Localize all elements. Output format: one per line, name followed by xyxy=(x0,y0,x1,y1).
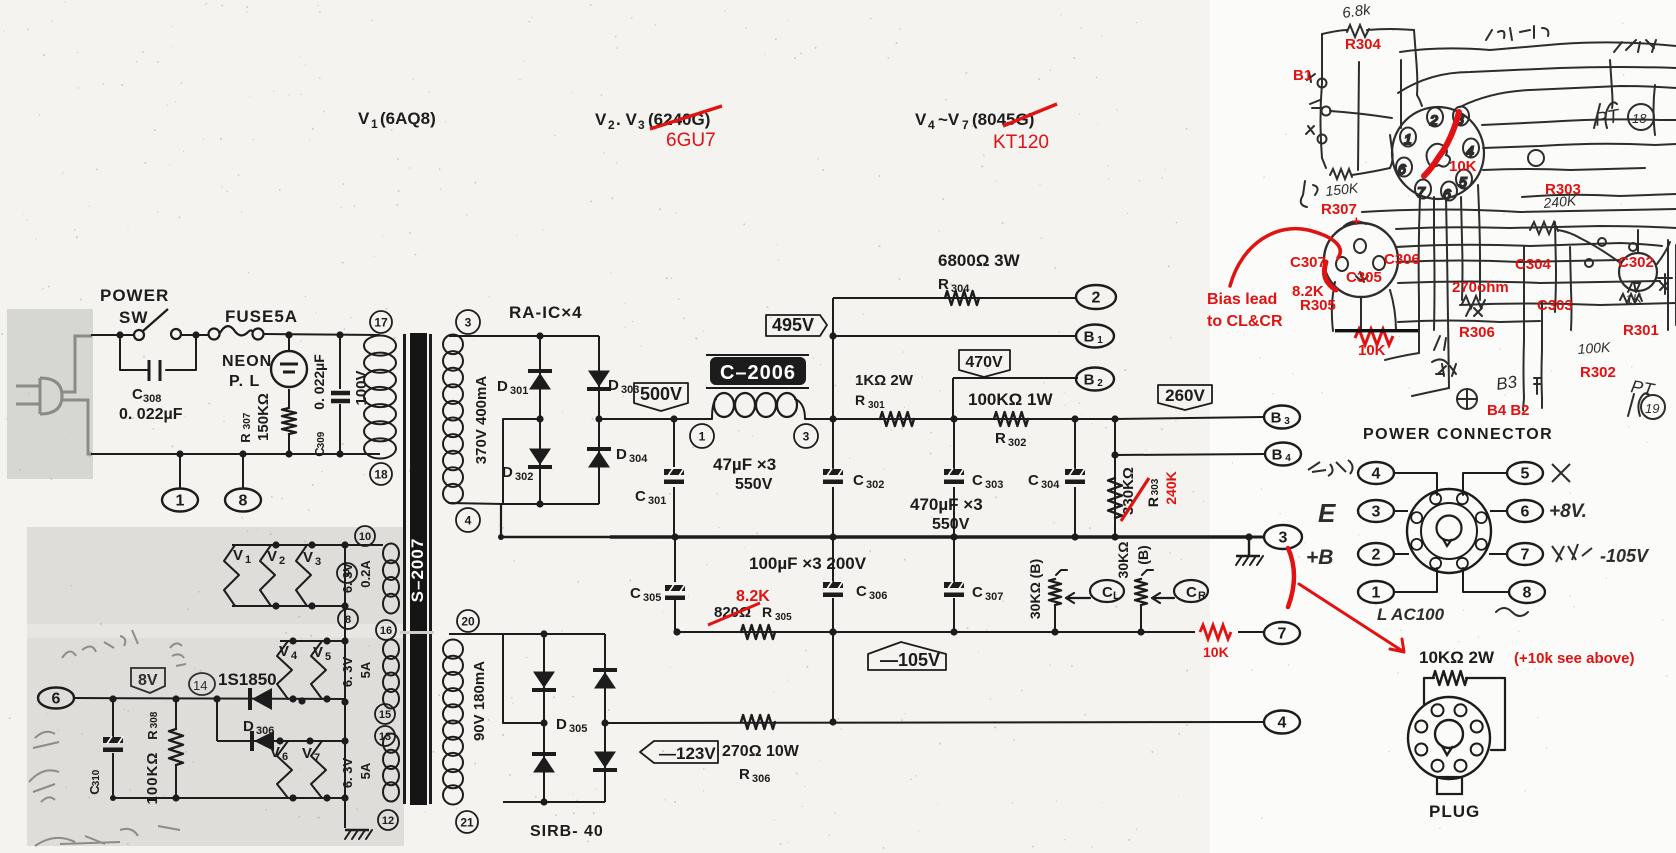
svg-text:1KΩ 2W: 1KΩ 2W xyxy=(855,372,914,389)
svg-text:+8V.: +8V. xyxy=(1549,501,1587,522)
svg-text:6: 6 xyxy=(1521,504,1530,521)
svg-text:500V: 500V xyxy=(640,384,682,404)
svg-text:30KΩ (B): 30KΩ (B) xyxy=(1027,559,1043,619)
svg-text:V: V xyxy=(358,109,370,128)
svg-text:R: R xyxy=(238,433,253,443)
svg-text:V: V xyxy=(233,547,243,564)
svg-text:POWER: POWER xyxy=(100,286,169,305)
svg-text:6800Ω 3W: 6800Ω 3W xyxy=(938,251,1021,270)
svg-text:C307: C307 xyxy=(1290,254,1326,271)
svg-text:6GU7: 6GU7 xyxy=(666,130,716,151)
svg-text:240K: 240K xyxy=(1163,471,1179,504)
svg-text:V: V xyxy=(915,110,927,129)
svg-text:C: C xyxy=(1186,584,1197,601)
svg-text:RA-IC×4: RA-IC×4 xyxy=(509,303,583,322)
svg-text:0.2A: 0.2A xyxy=(358,560,373,588)
svg-text:C303: C303 xyxy=(1537,297,1573,314)
svg-text:V: V xyxy=(270,744,280,761)
svg-text:305: 305 xyxy=(775,612,792,623)
svg-text:. V: . V xyxy=(616,110,637,129)
svg-text:R304: R304 xyxy=(1345,36,1382,53)
svg-text:—123V: —123V xyxy=(659,744,716,763)
svg-text:304: 304 xyxy=(629,453,648,465)
svg-text:8.2K: 8.2K xyxy=(736,588,770,605)
svg-text:5: 5 xyxy=(1459,174,1467,190)
svg-text:0. 022µF: 0. 022µF xyxy=(119,406,183,423)
svg-text:(6AQ8): (6AQ8) xyxy=(380,109,436,128)
svg-text:C: C xyxy=(853,472,864,489)
svg-text:303: 303 xyxy=(621,384,639,396)
svg-text:305: 305 xyxy=(569,723,587,735)
svg-text:R: R xyxy=(1198,590,1206,602)
svg-text:—105V: —105V xyxy=(880,650,940,670)
svg-text:C: C xyxy=(1102,584,1113,601)
svg-text:C302: C302 xyxy=(1618,254,1654,271)
svg-text:4: 4 xyxy=(1278,715,1287,732)
svg-text:47µF ×3: 47µF ×3 xyxy=(713,455,776,474)
svg-text:V: V xyxy=(267,548,277,565)
svg-text:310: 310 xyxy=(91,769,102,786)
svg-text:5A: 5A xyxy=(358,661,373,678)
svg-text:Bias lead: Bias lead xyxy=(1207,291,1277,308)
svg-text:6: 6 xyxy=(1398,161,1406,177)
svg-text:PLUG: PLUG xyxy=(1429,802,1480,821)
svg-text:15: 15 xyxy=(379,709,391,721)
svg-text:270Ω 10W: 270Ω 10W xyxy=(722,743,800,760)
svg-text:R: R xyxy=(855,392,865,408)
svg-text:470µF ×3: 470µF ×3 xyxy=(910,495,983,514)
svg-text:820Ω: 820Ω xyxy=(714,604,751,621)
svg-text:303: 303 xyxy=(1150,478,1161,495)
svg-text:550V: 550V xyxy=(735,476,773,493)
svg-text:R: R xyxy=(938,276,949,293)
svg-text:3: 3 xyxy=(1372,504,1381,521)
svg-text:R: R xyxy=(1145,497,1161,507)
svg-text:R303: R303 xyxy=(1545,181,1581,198)
svg-text:2: 2 xyxy=(1372,547,1381,564)
svg-text:R: R xyxy=(739,766,750,783)
svg-text:305: 305 xyxy=(643,592,661,604)
svg-text:100KΩ 1W: 100KΩ 1W xyxy=(968,390,1053,409)
svg-text:1: 1 xyxy=(699,429,706,443)
svg-text:306: 306 xyxy=(752,773,770,785)
svg-text:19: 19 xyxy=(1645,401,1659,416)
svg-text:301: 301 xyxy=(868,400,885,411)
svg-text:270ohm: 270ohm xyxy=(1452,279,1509,296)
svg-text:306: 306 xyxy=(256,725,274,737)
svg-text:D: D xyxy=(497,378,508,395)
svg-text:4: 4 xyxy=(465,513,472,527)
svg-text:C: C xyxy=(132,386,143,403)
svg-text:3: 3 xyxy=(465,315,472,329)
svg-text:R: R xyxy=(762,604,772,620)
svg-text:E: E xyxy=(1318,498,1336,528)
svg-text:10K: 10K xyxy=(1449,158,1477,175)
svg-text:12: 12 xyxy=(382,815,394,827)
svg-text:1: 1 xyxy=(1372,585,1381,602)
svg-text:4: 4 xyxy=(291,650,298,662)
svg-text:V: V xyxy=(279,643,289,660)
svg-text:2: 2 xyxy=(608,118,615,132)
svg-text:1: 1 xyxy=(1097,335,1103,346)
svg-text:7: 7 xyxy=(1417,184,1426,200)
svg-text:1K: 1K xyxy=(1625,291,1643,307)
svg-text:14: 14 xyxy=(193,678,207,693)
svg-text:B: B xyxy=(1272,447,1283,464)
svg-text:-105V: -105V xyxy=(1600,546,1650,566)
svg-text:150KΩ: 150KΩ xyxy=(255,393,272,441)
svg-text:D: D xyxy=(243,718,254,735)
svg-text:301: 301 xyxy=(648,495,666,507)
svg-text:C: C xyxy=(972,584,983,601)
svg-text:1: 1 xyxy=(1404,131,1412,147)
svg-text:C: C xyxy=(635,488,646,505)
svg-text:8: 8 xyxy=(1523,585,1532,602)
svg-text:100KΩ: 100KΩ xyxy=(144,752,161,805)
svg-text:8V: 8V xyxy=(138,672,158,689)
svg-text:POWER CONNECTOR: POWER CONNECTOR xyxy=(1363,426,1553,443)
svg-text:(B): (B) xyxy=(1135,545,1151,564)
svg-text:3: 3 xyxy=(1284,416,1290,427)
svg-text:B: B xyxy=(1271,410,1282,427)
svg-text:3: 3 xyxy=(638,118,645,132)
svg-text:1: 1 xyxy=(371,117,378,131)
svg-text:302: 302 xyxy=(1008,437,1026,449)
svg-text:304: 304 xyxy=(951,283,970,295)
svg-text:V: V xyxy=(313,644,323,661)
svg-text:L: L xyxy=(1113,590,1120,602)
svg-text:307: 307 xyxy=(985,591,1003,603)
svg-text:13: 13 xyxy=(379,731,391,743)
svg-text:495V: 495V xyxy=(772,315,814,335)
svg-text:100K: 100K xyxy=(1577,339,1611,357)
svg-text:R306: R306 xyxy=(1459,324,1495,341)
svg-text:D: D xyxy=(502,464,513,481)
svg-text:5: 5 xyxy=(1521,466,1530,483)
svg-text:30KΩ: 30KΩ xyxy=(1115,542,1131,579)
svg-text:FUSE5A: FUSE5A xyxy=(225,307,298,326)
svg-text:17: 17 xyxy=(374,315,388,329)
svg-text:SIRB- 40: SIRB- 40 xyxy=(530,823,604,840)
svg-text:C305: C305 xyxy=(1346,269,1382,286)
svg-text:100V: 100V xyxy=(353,370,370,405)
svg-text:1: 1 xyxy=(176,493,185,510)
svg-text:307: 307 xyxy=(242,412,253,429)
svg-text:5: 5 xyxy=(325,651,331,663)
svg-text:90V 180mA: 90V 180mA xyxy=(471,661,488,741)
svg-text:302: 302 xyxy=(515,471,533,483)
svg-text:302: 302 xyxy=(866,479,884,491)
svg-text:10: 10 xyxy=(359,531,371,543)
svg-text:0. 022µF: 0. 022µF xyxy=(311,354,327,410)
svg-text:C: C xyxy=(1028,472,1039,489)
svg-text:303: 303 xyxy=(985,479,1003,491)
svg-text:SW: SW xyxy=(119,308,148,327)
svg-text:309: 309 xyxy=(316,431,327,448)
svg-text:4: 4 xyxy=(928,118,935,132)
svg-text:3: 3 xyxy=(315,556,321,568)
svg-text:470V: 470V xyxy=(965,354,1003,371)
svg-text:V: V xyxy=(595,110,607,129)
svg-text:D: D xyxy=(608,377,619,394)
svg-text:(+10k see above): (+10k see above) xyxy=(1514,650,1635,667)
svg-text:+: + xyxy=(1352,213,1361,230)
svg-text:R: R xyxy=(995,430,1006,447)
svg-text:1: 1 xyxy=(245,554,251,566)
svg-text:B4 B2: B4 B2 xyxy=(1487,402,1530,419)
svg-text:3: 3 xyxy=(1279,530,1288,547)
svg-text:C306: C306 xyxy=(1384,251,1420,268)
svg-text:6. 3V: 6. 3V xyxy=(340,562,355,593)
svg-text:2: 2 xyxy=(1097,378,1103,389)
svg-text:B: B xyxy=(1084,329,1095,346)
svg-text:R301: R301 xyxy=(1623,322,1659,339)
svg-text:R305: R305 xyxy=(1300,297,1336,314)
svg-text:3: 3 xyxy=(803,429,810,443)
svg-text:2: 2 xyxy=(1429,112,1438,128)
svg-text:B3: B3 xyxy=(1495,372,1519,394)
svg-text:306: 306 xyxy=(869,590,887,602)
svg-text:R: R xyxy=(145,730,160,740)
svg-text:18: 18 xyxy=(374,467,388,481)
svg-text:4: 4 xyxy=(1372,466,1381,483)
svg-text:C: C xyxy=(856,583,867,600)
svg-text:R302: R302 xyxy=(1580,364,1616,381)
svg-text:2: 2 xyxy=(279,555,285,567)
svg-text:10K: 10K xyxy=(1203,644,1229,660)
svg-text:+B: +B xyxy=(1306,546,1333,569)
svg-text:D: D xyxy=(616,446,627,463)
svg-text:6. 3V: 6. 3V xyxy=(340,656,355,687)
svg-text:304: 304 xyxy=(1041,479,1060,491)
svg-text:260V: 260V xyxy=(1165,386,1205,405)
svg-text:20: 20 xyxy=(461,614,475,628)
svg-text:V: V xyxy=(302,745,312,762)
svg-text:4: 4 xyxy=(1285,453,1291,464)
svg-text:10K: 10K xyxy=(1358,342,1386,359)
svg-text:D: D xyxy=(556,716,567,733)
svg-text:550V: 550V xyxy=(932,516,970,533)
svg-text:L AC100: L AC100 xyxy=(1377,605,1445,624)
svg-text:5A: 5A xyxy=(358,762,373,779)
svg-text:7: 7 xyxy=(1278,626,1287,643)
svg-text:~V: ~V xyxy=(938,110,960,129)
svg-text:8: 8 xyxy=(239,493,248,510)
svg-text:C: C xyxy=(630,585,641,602)
svg-text:C: C xyxy=(972,472,983,489)
svg-text:7: 7 xyxy=(314,752,320,764)
svg-text:4: 4 xyxy=(1466,143,1474,159)
svg-text:370V 400mA: 370V 400mA xyxy=(473,376,490,465)
svg-text:301: 301 xyxy=(510,385,528,397)
svg-text:6: 6 xyxy=(52,691,61,708)
svg-text:308: 308 xyxy=(143,393,161,405)
svg-text:C304: C304 xyxy=(1515,256,1552,273)
svg-text:1S1850: 1S1850 xyxy=(218,670,277,689)
svg-text:KT120: KT120 xyxy=(993,132,1049,153)
svg-text:to CL&CR: to CL&CR xyxy=(1207,313,1283,330)
svg-text:6. 3V: 6. 3V xyxy=(340,757,355,788)
svg-text:7: 7 xyxy=(962,118,969,132)
svg-text:NEON: NEON xyxy=(222,353,272,370)
svg-text:308: 308 xyxy=(149,711,160,728)
svg-text:18: 18 xyxy=(1632,111,1647,126)
svg-text:S–2007: S–2007 xyxy=(408,538,427,603)
svg-text:10KΩ 2W: 10KΩ 2W xyxy=(1419,648,1495,667)
svg-text:100µF ×3 200V: 100µF ×3 200V xyxy=(749,554,867,573)
svg-text:V: V xyxy=(303,549,313,566)
svg-text:C–2006: C–2006 xyxy=(720,362,796,384)
svg-text:2: 2 xyxy=(1092,290,1101,307)
svg-text:6: 6 xyxy=(282,751,288,763)
svg-text:16: 16 xyxy=(380,625,392,637)
svg-text:21: 21 xyxy=(460,815,474,829)
svg-text:7: 7 xyxy=(1521,547,1530,564)
svg-text:8: 8 xyxy=(345,614,351,626)
svg-text:B: B xyxy=(1084,372,1095,389)
svg-text:P. L: P. L xyxy=(229,373,260,390)
svg-text:B1: B1 xyxy=(1293,67,1312,84)
